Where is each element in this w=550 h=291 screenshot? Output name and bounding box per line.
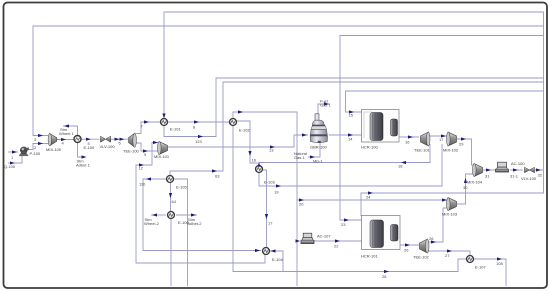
label stream 28 [382,274,387,279]
arrow into GBR-100 [302,133,307,136]
svg-text:TEE-102: TEE-102 [413,255,430,260]
label stream 18 [398,164,403,169]
svg-text:MIX-100: MIX-100 [46,147,62,152]
label stream 4 [62,141,65,146]
wire stream 2 [27,144,48,150]
label stream 24 [366,195,371,200]
label E-102 [239,128,250,133]
arrow stream 27 [447,249,452,252]
arrow stream 32 [536,168,541,171]
svg-text:E-107: E-107 [475,265,486,270]
svg-text:Gas 1: Gas 1 [294,155,305,160]
wire stream 22 [314,240,362,242]
label E-107 [475,265,486,270]
wire stream 5 [81,138,100,140]
label stream 12 [139,166,144,171]
svg-text:MIX-103: MIX-103 [442,212,458,217]
svg-text:12: 12 [139,166,144,171]
wire stream 17 E-103 to E-104 [263,170,267,247]
label TEE-102 [413,255,430,260]
wire TEE-102 top branch [427,208,448,242]
svg-text:30: 30 [463,185,468,190]
svg-text:17: 17 [268,221,273,226]
arrow fuel gas 1 [324,102,329,105]
label stream 29 [459,142,464,147]
cooler E-106 [168,212,175,219]
heater E-100 [74,136,81,143]
wire stream 32 [535,169,544,171]
valve VLV-101 [525,167,535,172]
valve VLV-100 [101,136,111,142]
label stream 6 [119,141,122,146]
arrow stream 1 [12,150,17,153]
label stream 2 [34,145,37,150]
svg-text:31: 31 [485,174,490,179]
arrow stream 30 [464,178,467,183]
svg-text:26: 26 [429,236,434,241]
wire stream 110 [143,179,261,251]
svg-text:22: 22 [334,244,339,249]
svg-text:E-102: E-102 [239,128,250,133]
arrow stream 108 [497,257,502,260]
arrow stream 18 [401,161,406,164]
label Fuel Gas 1 [320,99,331,108]
wire stream 31 [483,169,496,171]
svg-text:29: 29 [459,142,464,147]
label Stm Wheel-2 [144,217,160,226]
label E-105 [176,185,187,190]
arrow E-100 top energy [64,124,69,127]
arrow stream 15 [349,110,354,113]
label stream 8 [193,125,196,130]
arrow E-106 energy right [191,213,196,216]
label stream 63 [215,174,220,179]
label HCR-100 [361,145,378,150]
label stream 31-1 [510,174,519,179]
label E-100 [84,145,95,150]
wire E-100 energy bottom [78,143,84,158]
wire stream 27 [428,251,470,255]
arrow stream 9 [143,149,148,152]
arrow into AC-107 [296,239,301,242]
svg-text:27: 27 [445,253,450,258]
label stream 5 [88,141,91,146]
svg-text:MIX-102: MIX-102 [443,148,459,153]
svg-text:Wheel-2: Wheel-2 [144,221,160,226]
arrow into E-101 top [162,114,165,119]
label Q-100 [4,164,16,169]
svg-text:Adbet 1: Adbet 1 [76,162,91,167]
arrow stream 12 into MIX-101 [153,141,158,144]
label stream 17b [268,221,273,226]
arrow stream 5 [86,138,91,141]
arrow Q-100 [10,162,15,165]
label E-103 [264,180,275,185]
pump P-100 [19,147,29,156]
wire E-106 energy left [151,214,166,216]
svg-text:VLV-100: VLV-100 [521,176,537,181]
label AC-107 [317,234,331,239]
arrow stream 13 [270,145,275,148]
wire stream 15 loop [346,91,544,112]
svg-text:HCR-101: HCR-101 [361,254,378,259]
svg-text:108: 108 [496,261,503,266]
svg-text:14: 14 [348,137,353,142]
arrow stream 28 [384,270,389,273]
reactor HCR-101 [362,216,401,250]
arrow stream 2 [38,142,43,145]
arrow stream 31-1 [513,168,518,171]
label GBR-100 [310,145,327,150]
wire stream 26 HCR-101 out [400,244,419,246]
cooler E-107 [467,256,474,263]
wire Q-100 energy [8,156,22,163]
svg-text:VLV-100: VLV-100 [100,144,116,149]
label MIX-103 [442,212,458,217]
label VLV-101 [521,176,537,181]
wire E-102 top to column x297 [233,112,297,286]
label MIX-102 [443,148,459,153]
label P-100 [30,151,41,156]
wire stream 23 loop [340,36,544,221]
arrow stream 26 [405,243,410,246]
arrow stream 24 [368,191,373,194]
label stream 3 [34,137,37,142]
arrow stream 8 [194,120,199,123]
svg-text:E-105: E-105 [176,185,187,190]
cooler E-105 [167,176,174,183]
arrow into E-104 right [271,249,276,252]
svg-text:64: 64 [172,199,177,204]
arrow stream 123 [198,135,203,138]
arrow stream 110 into E-104 [255,249,260,252]
wire stream 18 [259,144,430,163]
label stream 108 [496,261,503,266]
svg-text:19: 19 [274,190,279,195]
label E-101 [170,127,181,132]
wire fuel gas 1 [318,104,330,114]
arrow E-106 energy left [152,213,157,216]
reformer GBR-100 [310,114,327,143]
arrow stream 12 [139,163,144,166]
wire stream 28 [233,126,466,272]
arrow natural gas 1 [310,155,315,158]
label MIX-101 [154,154,170,159]
svg-text:Q-100: Q-100 [4,164,16,169]
wire stream 108 [474,259,506,286]
wire stream 3 loop [33,26,544,136]
label stream 123 [195,139,202,144]
wire stream 29 [457,139,474,165]
svg-text:Mix-1: Mix-1 [313,159,324,164]
svg-text:16: 16 [405,140,410,145]
label stream 64 [172,199,177,204]
arrow stream 17 down [265,214,268,219]
svg-text:Wheel 1: Wheel 1 [59,131,74,136]
label stream 26b [429,236,434,241]
label stream 22 [334,244,339,249]
svg-text:E-101: E-101 [170,127,181,132]
mixer MIX-100 [48,133,57,145]
svg-text:Gas 1: Gas 1 [320,103,331,108]
label MIX-100 [46,147,62,152]
svg-text:HCR-100: HCR-100 [361,145,378,150]
wire stream 123 loop [164,78,544,137]
wire stream 7 [136,122,161,134]
label E-104 [272,257,283,262]
svg-text:E-103: E-103 [264,180,275,185]
svg-text:26: 26 [404,248,409,253]
wire stream 13 [168,135,308,147]
label stream 16 [405,140,410,145]
svg-text:110: 110 [139,182,146,187]
arrow stream 14 [348,133,353,136]
svg-text:32: 32 [538,173,543,178]
svg-text:MIX-104: MIX-104 [467,180,483,185]
wire stream 14 [329,134,362,136]
wire stream 6 [111,138,128,140]
arrow stream 7 [144,120,149,123]
svg-text:20: 20 [299,202,304,207]
label stream 27 [445,253,450,258]
svg-text:31-1: 31-1 [510,174,519,179]
heater E-101 [161,119,168,126]
mixer MIX-103 [447,198,457,211]
svg-text:23: 23 [341,222,346,227]
label HCR-101 [361,254,378,259]
wire stream 31-1 [510,169,523,171]
label stream 1 [11,155,14,160]
svg-text:18: 18 [398,164,403,169]
arrow stream 23 [344,218,349,221]
svg-text:AC-100: AC-100 [511,161,525,166]
compressor AC-107 [301,233,314,243]
label stream 32 [538,173,543,178]
arrow stream 4 [61,138,66,141]
label Stm Adbet-2 [188,217,203,226]
label stream 26 [404,248,409,253]
arrow stream 19 [276,184,281,187]
svg-text:13: 13 [269,148,274,153]
label Natural Gas 1 [294,151,307,160]
label MIX-104 [467,180,483,185]
arrow stream 63 [212,169,217,172]
mixer MIX-104 [473,164,483,177]
mixer MIX-102 [447,132,457,146]
tee TEE-101 [421,132,431,146]
label stream 15 [349,113,354,118]
reactor HCR-100 [362,86,400,142]
label stream 7 [141,124,144,129]
wire stream 19 [259,144,442,186]
svg-text:123: 123 [195,139,202,144]
tee TEE-100 [129,133,137,147]
svg-text:16: 16 [252,158,257,163]
wire stream 64 [170,183,172,211]
arrow stream 110 [146,177,151,180]
arrow stream 20 [299,198,304,201]
svg-text:TEE-101: TEE-101 [414,148,431,153]
label VLV-100 [100,144,116,149]
svg-text:24: 24 [366,195,371,200]
wire stream 1 [8,151,18,153]
label AC-100 [511,161,525,166]
wire E-106 energy right [176,214,197,216]
svg-text:TEE-100: TEE-100 [123,149,140,154]
svg-text:AC-107: AC-107 [317,234,331,239]
arrow on E-102 top line [238,110,243,113]
wire E-106 down [170,219,172,286]
arrow stream 3 [38,134,43,137]
label TEE-100 [123,149,140,154]
heater E-102 [230,119,237,126]
svg-text:Adbet-2: Adbet-2 [188,221,203,226]
label stream 16b [252,158,257,163]
wire E-104 right [270,251,283,272]
label stream 31 [485,174,490,179]
svg-text:P-100: P-100 [30,151,41,156]
svg-text:E-104: E-104 [272,257,283,262]
wire stream 4 [57,139,74,141]
wire stream 12 [136,143,265,264]
label stream 17 [439,137,444,142]
svg-text:MIX-101: MIX-101 [154,154,170,159]
arrow stream 22 [335,239,340,242]
arrow stream 29 [461,137,466,140]
arrow E-100 bottom energy [82,155,87,158]
tee TEE-102 [420,239,430,253]
wire stream 24 top loop [164,12,544,216]
wire stream 9 [136,143,159,151]
label Stm Wheel 1 [59,127,74,136]
wire stream 16 E-102 to E-103 [237,121,259,165]
mixer MIX-101 [158,142,168,155]
wire E-105 right down [174,179,188,286]
svg-text:63: 63 [215,174,220,179]
label Stm Adbet 1 [76,158,91,167]
wire E-100 energy top [63,126,78,136]
arrow on E-103 top line [258,162,261,167]
wire stream 8 [168,121,229,123]
svg-text:15: 15 [349,113,354,118]
label stream 13 [269,148,274,153]
svg-text:17: 17 [439,137,444,142]
label stream 110 [139,182,146,187]
svg-text:GBR-100: GBR-100 [310,145,327,150]
label stream 23 [341,222,346,227]
wire stream 17 tee to mix [430,135,447,137]
wire stream 16 HCR-100 out [399,136,419,138]
arrow stream 20 into MIX-103 [442,198,447,201]
label Mix-1 [313,159,324,164]
compressor AC-100 [496,162,509,172]
svg-text:28: 28 [382,274,387,279]
wire stream 30 [457,174,474,204]
arrow stream 31 [486,168,491,171]
label stream 14 [348,137,353,142]
arrow stream 64 [169,193,172,198]
cooler E-104 [263,248,270,255]
label E-106 [178,220,189,225]
arrow stream 16 tee inlet [408,135,413,138]
label stream 9 [144,152,147,157]
arrow stream 26 up branch [431,240,436,243]
label stream 19 [274,190,279,195]
wire natural gas 1 [308,143,320,157]
label TEE-101 [414,148,431,153]
wire stream 20 [297,199,447,201]
arrow stream 6 [115,138,125,141]
label stream 30 [463,185,468,190]
arrow stream 16 down [248,151,251,156]
arrow stream 17 mix inlet [441,134,446,137]
heater E-103 [256,166,263,173]
wire stream 63 loop [170,82,544,175]
label stream 20 [299,202,304,207]
